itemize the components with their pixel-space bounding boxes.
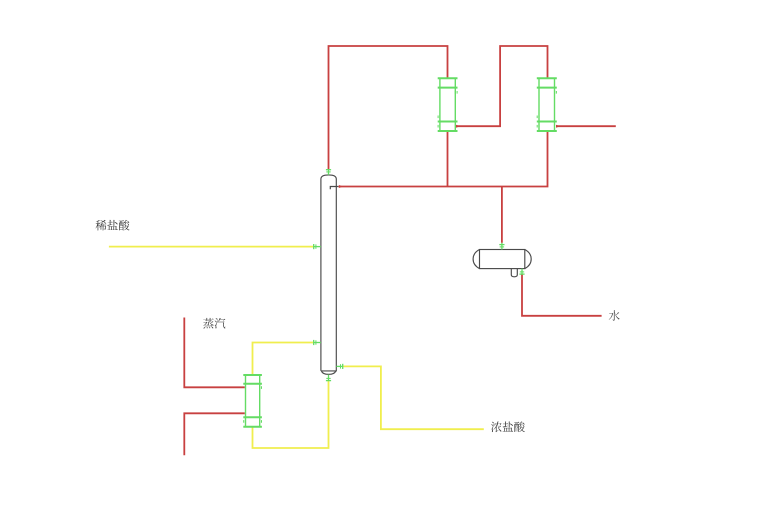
heat exchanger E1 <box>438 78 458 131</box>
node label water 水 <box>609 310 620 321</box>
junction arrow HX1 inlet <box>456 125 460 128</box>
nozzle column top <box>326 169 331 175</box>
nozzle column vapor return <box>313 340 321 345</box>
wire steam supply <box>184 318 245 388</box>
heat exchanger E2 <box>537 78 557 131</box>
junction arrow HX2 inlet <box>556 125 560 128</box>
node label dilute hydrochloric acid 稀盐酸 <box>96 220 130 231</box>
nozzle column feed <box>313 244 321 249</box>
wire dilute-acid feed <box>109 246 313 248</box>
wire column-overhead riser <box>329 46 448 169</box>
nozzle drum inlet <box>499 243 504 250</box>
nozzle column bottom <box>326 375 331 381</box>
junction arrow column reflux <box>339 185 343 188</box>
node label concentrated hydrochloric acid 浓盐酸 <box>491 422 525 433</box>
nozzle column side draw <box>336 364 343 369</box>
column T1 <box>321 175 336 374</box>
nozzle drum boot <box>511 269 517 277</box>
nozzle column reflux (dip pipe) <box>330 187 338 190</box>
node label steam 蒸汽 <box>203 318 225 329</box>
wire reflux header <box>338 131 547 187</box>
wire header to drum <box>501 187 503 243</box>
wire reboiler vapor return <box>253 343 314 375</box>
wire concentrated-acid product <box>343 366 484 429</box>
wire condensate return <box>184 413 245 455</box>
heat exchanger E3 reboiler <box>243 375 262 427</box>
wire drum outlet to water <box>522 275 602 316</box>
wire HX1-bottom to reflux header <box>447 131 449 187</box>
wire HX1-side to HX2-top <box>457 46 548 126</box>
wire column bottoms circulation <box>253 381 329 448</box>
nozzle drum outlet <box>519 269 524 275</box>
drum V1 reflux accumulator <box>473 250 531 277</box>
wire HX2-side outlet <box>556 125 616 127</box>
